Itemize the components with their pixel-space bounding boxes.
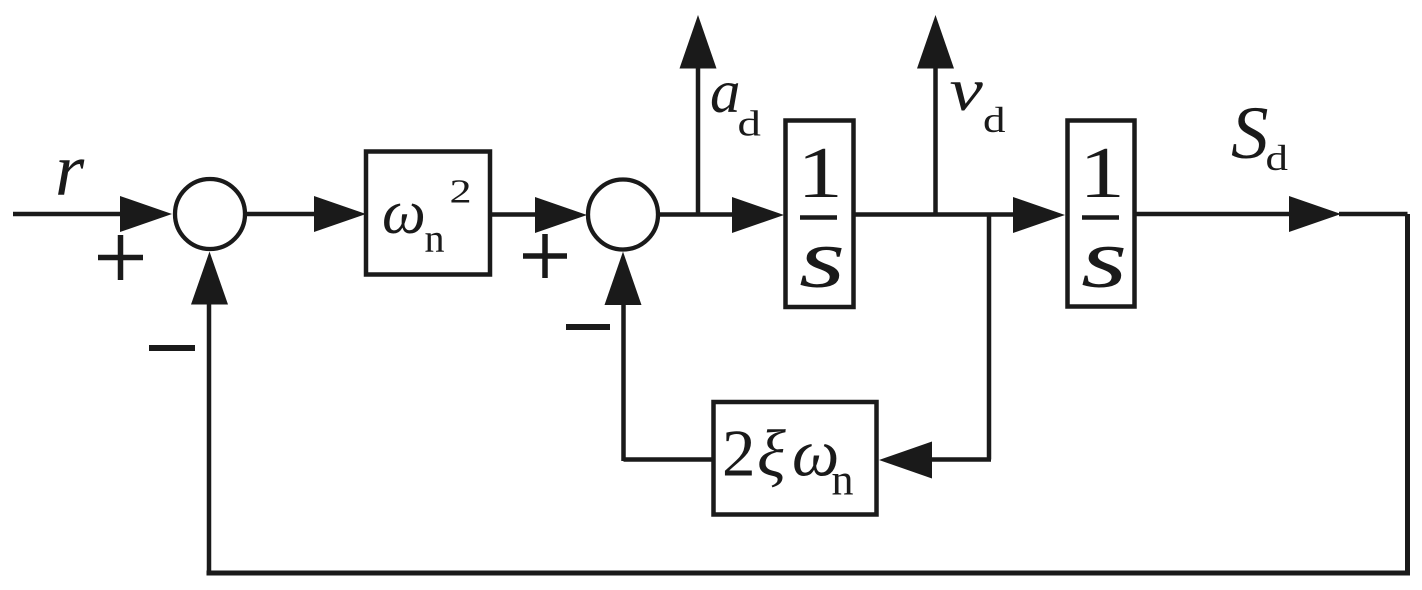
label 1/s in integrator 2: [1079, 132, 1127, 306]
arrowhead on output wire: [1289, 196, 1341, 232]
label omega_n^2: [382, 172, 472, 260]
svg-text:r: r: [55, 129, 85, 212]
summing junction 1: [175, 179, 245, 249]
wire right vertical down: [1405, 214, 1410, 573]
label v_d: [950, 56, 1006, 140]
label 2xiomega_n: [722, 417, 854, 505]
wire bottom feedback: [207, 571, 1411, 576]
svg-text:S: S: [1231, 92, 1269, 175]
svg-text:n: n: [832, 456, 854, 505]
svg-text:v: v: [950, 56, 984, 123]
svg-text:ξ: ξ: [757, 417, 786, 491]
svg-text:a: a: [710, 59, 741, 126]
arrowhead into summer 2: [535, 197, 587, 233]
block integrator 2: [1068, 121, 1135, 307]
svg-text:d: d: [983, 100, 1006, 140]
node branch a_d wire up: [696, 64, 701, 216]
wire output to right corner: [1339, 212, 1408, 217]
block 2xiwn: [714, 402, 877, 515]
node junction wire down to damping feedback: [987, 214, 992, 460]
node branch v_d wire up: [933, 64, 938, 216]
arrowhead into summer 1 bottom: [191, 252, 228, 305]
label plus at summer 1: [98, 235, 143, 280]
svg-text:s: s: [799, 212, 845, 306]
arrowhead into summer 2 bottom: [605, 252, 642, 305]
arrowhead v_d up: [917, 15, 954, 69]
wire integrator 2 output: [1135, 212, 1293, 217]
svg-text:1: 1: [797, 132, 843, 213]
block wn2: [366, 152, 490, 275]
wire left vertical up to summer 1: [207, 300, 212, 575]
svg-text:2: 2: [722, 417, 756, 491]
arrowhead a_d up: [680, 15, 717, 69]
label S_d: [1231, 92, 1288, 178]
wire damping feedback horizontal into block: [930, 457, 991, 462]
label minus at summer 2: [566, 324, 610, 330]
wire block 2xiwn output left: [624, 457, 714, 462]
summing junction 2: [588, 180, 658, 250]
block integrator 1: [786, 121, 854, 308]
svg-text:1: 1: [1079, 132, 1125, 213]
label a_d: [710, 59, 761, 144]
svg-text:d: d: [1266, 138, 1289, 178]
wire summer 1 to block wn2: [246, 212, 318, 217]
arrowhead into summer 1: [120, 196, 172, 232]
arrowhead into integrator 1: [732, 197, 784, 233]
label minus at summer 1: [149, 345, 195, 351]
arrowhead into block wn2: [314, 196, 366, 232]
svg-text:n: n: [425, 216, 445, 261]
arrowhead into integrator 2: [1013, 197, 1065, 233]
wire summer 2 to integrator 1: [659, 212, 734, 217]
wire integrator 1 to integrator 2: [853, 212, 1016, 217]
arrowhead into block 2xiwn: [879, 442, 932, 479]
wire damping feedback vertical up to summer 2: [621, 302, 626, 461]
wire input r: [13, 212, 125, 217]
svg-text:d: d: [738, 104, 762, 144]
svg-text:2: 2: [450, 172, 472, 210]
wire block wn2 to summer 2: [490, 212, 538, 217]
label 1/s in integrator 1: [797, 132, 845, 306]
label plus at summer 2: [523, 234, 567, 278]
svg-text:s: s: [1081, 212, 1127, 306]
svg-text:ω: ω: [382, 179, 426, 247]
